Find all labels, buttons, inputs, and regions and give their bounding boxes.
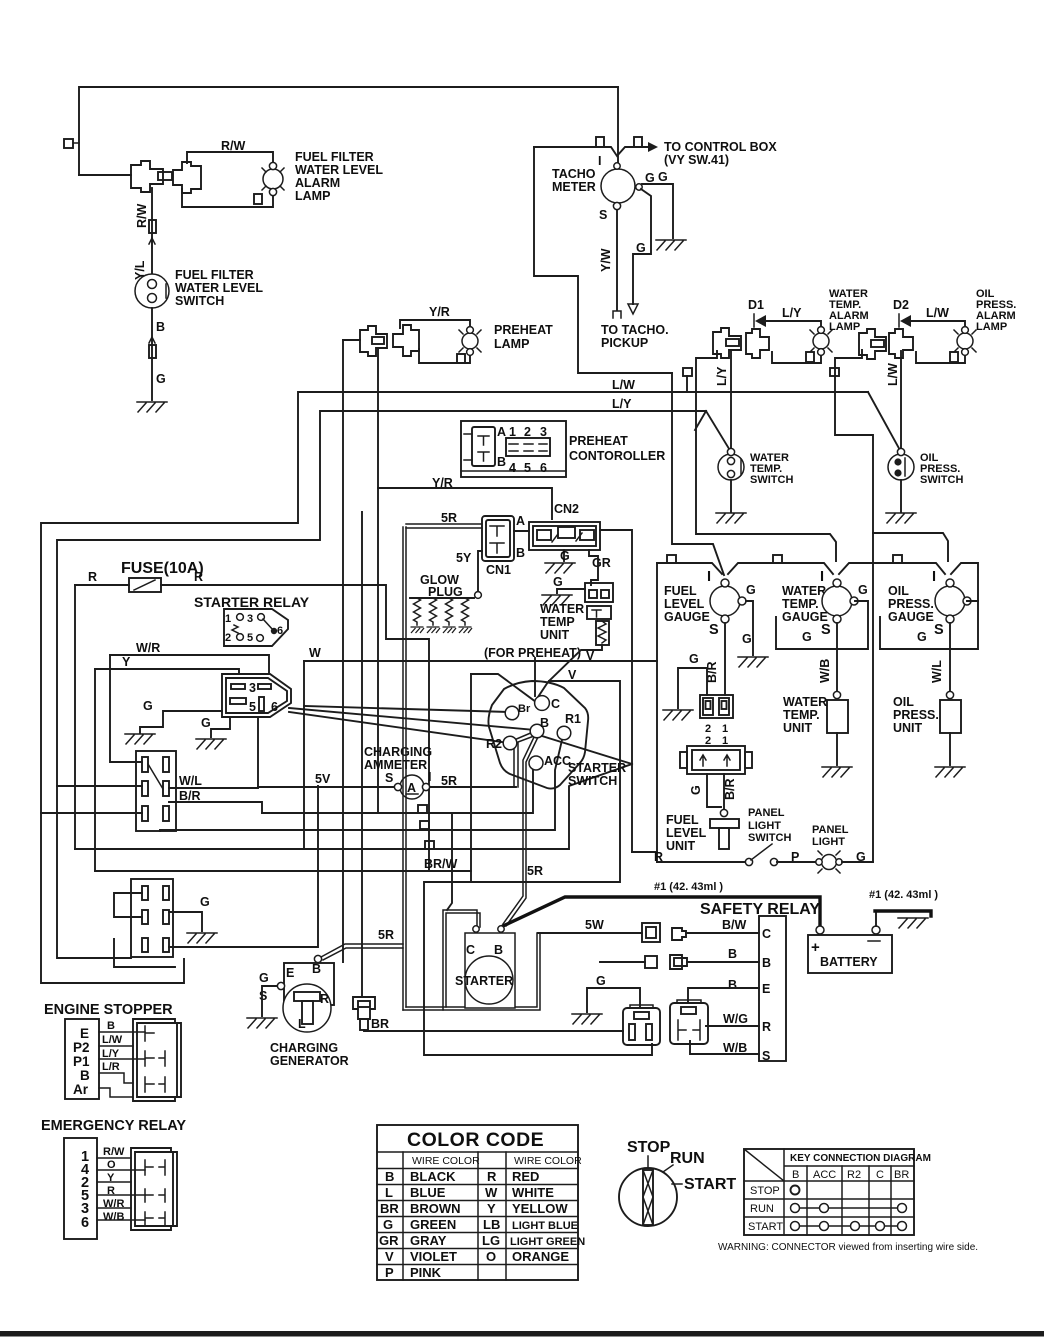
svg-text:2: 2 xyxy=(524,425,531,439)
pin E gen xyxy=(277,982,284,989)
svg-text:S: S xyxy=(709,622,720,638)
svg-text:LAMP: LAMP xyxy=(494,337,529,351)
wire L/W slant into switch xyxy=(868,392,901,452)
connector GR xyxy=(585,583,613,602)
wire G relay mid xyxy=(211,717,230,737)
svg-text:6: 6 xyxy=(271,700,278,714)
svg-text:C: C xyxy=(466,943,475,957)
svg-text:BLACK: BLACK xyxy=(410,1169,456,1184)
svg-text:Ar: Ar xyxy=(73,1082,89,1097)
wire vertical x378 from connector xyxy=(377,349,379,813)
svg-text:START: START xyxy=(748,1221,783,1233)
svg-text:WIRE COLOR: WIRE COLOR xyxy=(514,1155,582,1167)
svg-text:BR: BR xyxy=(894,1169,909,1181)
lamp fuel filter water level alarm xyxy=(263,169,283,189)
generator body xyxy=(283,984,331,1032)
connector C row square xyxy=(642,923,660,942)
connector 6pin bottom left xyxy=(131,879,173,957)
svg-text:CHARGING: CHARGING xyxy=(270,1041,338,1055)
svg-text:L/W: L/W xyxy=(926,306,949,320)
svg-text:A: A xyxy=(516,514,525,528)
svg-text:Y/W: Y/W xyxy=(599,248,613,272)
arrow to control box xyxy=(648,142,658,152)
svg-text:6: 6 xyxy=(277,625,283,637)
svg-text:WATER: WATER xyxy=(540,602,584,616)
svg-text:PRESS.: PRESS. xyxy=(893,708,939,722)
svg-text:UNIT: UNIT xyxy=(540,628,570,642)
svg-text:V: V xyxy=(385,1249,394,1264)
wire water gauge S down xyxy=(836,623,838,692)
wire BR/W xyxy=(95,870,471,872)
svg-text:W/B: W/B xyxy=(103,1211,124,1223)
svg-text:S: S xyxy=(259,989,267,1003)
svg-text:PANEL: PANEL xyxy=(812,824,849,836)
svg-text:B: B xyxy=(80,1068,90,1083)
wire sender left to R line xyxy=(707,774,721,807)
ground tacho xyxy=(656,240,686,250)
svg-text:L/R: L/R xyxy=(102,1061,120,1073)
svg-text:G: G xyxy=(658,170,668,184)
svg-text:S: S xyxy=(762,1049,770,1063)
wire switch to lamp xyxy=(777,861,819,863)
svg-text:FUEL FILTER: FUEL FILTER xyxy=(175,268,254,282)
svg-text:OIL: OIL xyxy=(893,695,914,709)
svg-text:W/B: W/B xyxy=(723,1041,747,1055)
svg-text:W/L: W/L xyxy=(179,774,202,788)
arrow hollow down xyxy=(628,304,638,314)
wire 5V feed from connector xyxy=(169,786,318,947)
wire line C from connector B xyxy=(835,350,873,862)
wire 5R branch to generator xyxy=(321,944,403,960)
terminal stub on lamp return xyxy=(254,194,262,204)
wire row B left xyxy=(600,961,645,963)
SECTION A : fuel filter block xyxy=(64,87,618,412)
svg-text:EMERGENCY RELAY: EMERGENCY RELAY xyxy=(41,1118,186,1134)
wire starter switch B to starter C double xyxy=(503,735,538,926)
wire W/L xyxy=(169,717,258,788)
svg-text:PINK: PINK xyxy=(410,1265,442,1280)
wire line A from tacho box xyxy=(672,373,724,575)
wire slant to starter switch B xyxy=(289,712,502,742)
svg-text:W/R: W/R xyxy=(136,641,160,655)
svg-text:WHITE: WHITE xyxy=(512,1185,554,1200)
relay2 body xyxy=(670,1003,708,1044)
svg-text:1: 1 xyxy=(509,425,516,439)
wire tacho feed horizontal with kink xyxy=(534,147,649,156)
svg-text:Y/R: Y/R xyxy=(429,305,450,319)
pin C xyxy=(535,696,550,711)
wire line C to oil gauge I xyxy=(873,533,948,561)
svg-text:YELLOW: YELLOW xyxy=(512,1201,568,1216)
wire row B to relay xyxy=(687,961,759,963)
wire CN2 middle to ground xyxy=(563,550,565,561)
connector alarm feed B xyxy=(859,329,886,359)
SECTION F : fuse, starter relay, connectors, stopper, emergency xyxy=(41,512,657,1239)
svg-text:BR: BR xyxy=(371,1017,389,1031)
wire mid horizontals row2 xyxy=(160,740,562,831)
svg-text:G: G xyxy=(802,630,812,644)
svg-text:A: A xyxy=(497,425,506,439)
svg-text:B: B xyxy=(516,546,525,560)
SECTION G : ammeter and starter switch xyxy=(258,527,657,1055)
svg-text:G: G xyxy=(553,575,563,589)
svg-text:S: S xyxy=(599,208,607,222)
svg-text:CN2: CN2 xyxy=(554,502,579,516)
wire CN1 B down to glow rail xyxy=(478,551,482,592)
key switch xyxy=(619,1168,677,1226)
water temp unit xyxy=(833,691,840,698)
emergency relay terminal box xyxy=(64,1138,97,1239)
wire gauges box left xyxy=(656,563,658,862)
connector sender lower xyxy=(687,746,745,774)
svg-text:(FOR PREHEAT): (FOR PREHEAT) xyxy=(484,646,581,660)
wire switch to ground xyxy=(730,480,732,512)
svg-text:B: B xyxy=(728,947,737,961)
stub rail 2 xyxy=(773,555,782,563)
wire BR xyxy=(364,1030,623,1031)
connector alarm feed A xyxy=(713,328,741,358)
fuel filter water level switch xyxy=(135,274,169,308)
connector fuel filter lamp (left half) xyxy=(131,161,163,192)
terminal stub top-left xyxy=(64,139,73,148)
svg-text:TO TACHO.: TO TACHO. xyxy=(601,323,669,337)
SECTION J : tables, key switch, footer xyxy=(0,1125,1044,1337)
stub rail 1 xyxy=(667,555,676,563)
svg-text:RUN: RUN xyxy=(750,1203,774,1215)
wire preheat connector left feed xyxy=(343,339,360,341)
glow plug 3 xyxy=(446,598,453,625)
svg-text:I: I xyxy=(428,770,431,784)
svg-text:L/W: L/W xyxy=(886,363,900,386)
pin Br xyxy=(505,706,519,720)
svg-text:V: V xyxy=(568,668,577,682)
svg-text:Br: Br xyxy=(518,703,531,715)
ground water temp switch xyxy=(716,513,746,523)
wire G pin to ground xyxy=(642,184,673,238)
svg-text:W/L: W/L xyxy=(930,660,944,683)
battery xyxy=(808,935,892,973)
svg-text:B: B xyxy=(494,943,503,957)
connector B row xyxy=(645,956,657,968)
ground relay left xyxy=(125,734,155,744)
wire main top feed xyxy=(79,87,618,175)
wire to fuel filter connector xyxy=(79,174,131,176)
ground bottom connector xyxy=(187,933,217,943)
svg-text:1: 1 xyxy=(225,613,231,625)
starter switch body xyxy=(488,681,588,789)
SECTION E : preheat controller, CN1 CN2, glow plugs xyxy=(378,421,665,852)
wire stub drop to L/W xyxy=(686,376,688,392)
svg-text:R: R xyxy=(194,570,203,584)
svg-text:LIGHT GREEN: LIGHT GREEN xyxy=(510,1236,585,1248)
wire lamp loop bottom D2 xyxy=(916,352,965,363)
wire preheat lamp top loop xyxy=(400,320,470,328)
svg-text:LAMP: LAMP xyxy=(829,321,860,333)
connector inside controller xyxy=(472,427,495,466)
wire switch to ground xyxy=(151,308,153,400)
wire lamp loop bottom D1 xyxy=(772,352,821,363)
starter body xyxy=(465,933,515,1008)
pin 5 bar xyxy=(259,697,264,711)
engine stopper terminal box xyxy=(65,1019,99,1099)
ground sender xyxy=(663,710,693,720)
connector under D1 xyxy=(746,329,769,358)
wire tacho box left xyxy=(534,147,672,373)
svg-text:PANEL: PANEL xyxy=(748,807,785,819)
svg-text:ALARM: ALARM xyxy=(295,176,340,190)
wire starter C loop double xyxy=(443,910,540,1010)
svg-text:TEMP.: TEMP. xyxy=(783,708,820,722)
wire 5R drop to C loop xyxy=(447,815,452,910)
svg-text:2: 2 xyxy=(225,632,231,644)
svg-text:LEVEL: LEVEL xyxy=(664,597,705,611)
svg-text:LEVEL: LEVEL xyxy=(666,826,707,840)
svg-text:R: R xyxy=(320,992,329,1006)
svg-text:FUEL FILTER: FUEL FILTER xyxy=(295,150,374,164)
wire D1 to lamp xyxy=(766,321,821,330)
fuel level gauge xyxy=(710,586,740,616)
svg-text:GREEN: GREEN xyxy=(410,1217,456,1232)
pin 1 bar xyxy=(231,684,245,689)
svg-text:A: A xyxy=(407,781,416,795)
svg-text:W: W xyxy=(309,646,321,660)
run circles xyxy=(795,1207,902,1209)
svg-text:L/W: L/W xyxy=(102,1034,123,1046)
terminal stub line C xyxy=(830,368,839,376)
diode D1 xyxy=(753,314,755,327)
svg-text:STOP: STOP xyxy=(627,1139,671,1156)
glow plug 2 xyxy=(430,598,437,625)
wire battery minus bracket xyxy=(875,911,877,926)
svg-text:5R: 5R xyxy=(378,928,394,942)
svg-text:SWITCH: SWITCH xyxy=(175,294,224,308)
tacho meter body xyxy=(601,169,635,203)
ground relay1 xyxy=(572,1014,602,1024)
pin ACC xyxy=(529,756,543,770)
relay1 body xyxy=(623,1008,660,1045)
wire fan R1 to right xyxy=(542,736,657,852)
svg-text:UNIT: UNIT xyxy=(666,839,696,853)
svg-text:C: C xyxy=(762,927,771,941)
svg-text:WATER: WATER xyxy=(782,584,826,598)
svg-text:SWITCH: SWITCH xyxy=(920,474,963,486)
wire U link left pins xyxy=(114,893,142,917)
svg-text:B: B xyxy=(497,455,506,469)
svg-text:I: I xyxy=(707,569,712,585)
svg-text:PREHEAT: PREHEAT xyxy=(494,323,553,337)
svg-text:ENGINE STOPPER: ENGINE STOPPER xyxy=(44,1002,173,1018)
svg-text:3: 3 xyxy=(247,613,253,625)
SECTION C : preheat lamp and trunks xyxy=(41,305,868,983)
wire 5R riser double to B pin xyxy=(514,732,534,787)
lamp water temp alarm xyxy=(813,333,829,349)
wire V down to starter switch C xyxy=(538,645,602,697)
wire L/W trunk xyxy=(41,392,868,983)
svg-text:CONTOROLLER: CONTOROLLER xyxy=(569,449,665,463)
relay socket body xyxy=(222,674,291,717)
svg-text:E: E xyxy=(286,966,294,980)
key connection table frame xyxy=(744,1149,914,1235)
wire water gauge G loop xyxy=(776,601,868,649)
svg-text:RED: RED xyxy=(512,1169,539,1184)
svg-text:LIGHT BLUE: LIGHT BLUE xyxy=(512,1220,578,1232)
wire vertical x343 xyxy=(342,340,344,962)
svg-text:G: G xyxy=(259,971,269,985)
SECTION B : tacho meter xyxy=(534,87,777,373)
svg-text:B/W: B/W xyxy=(722,918,747,932)
svg-text:BLUE: BLUE xyxy=(410,1185,446,1200)
svg-text:D1: D1 xyxy=(748,298,764,312)
svg-text:STOP: STOP xyxy=(750,1185,780,1197)
svg-text:OIL: OIL xyxy=(888,584,909,598)
svg-text:START: START xyxy=(684,1176,736,1193)
pin B gen xyxy=(314,955,321,962)
stop circle xyxy=(791,1186,800,1195)
svg-text:BR: BR xyxy=(380,1201,399,1216)
svg-text:L/Y: L/Y xyxy=(612,397,632,411)
wire CN1 to CN2 xyxy=(514,530,529,532)
svg-text:WATER: WATER xyxy=(783,695,827,709)
wire connector left stubs xyxy=(57,785,142,787)
pin B xyxy=(530,724,544,738)
connector preheat lamp right xyxy=(393,325,419,356)
wire slant to starter switch Br xyxy=(289,708,535,730)
svg-text:I: I xyxy=(820,569,825,585)
connector CN2 xyxy=(529,522,600,550)
svg-text:GENERATOR: GENERATOR xyxy=(270,1054,349,1068)
svg-text:COLOR CODE: COLOR CODE xyxy=(407,1129,544,1151)
wire Y xyxy=(95,669,239,674)
svg-text:STARTER: STARTER xyxy=(568,761,626,775)
wire G bottom connector xyxy=(169,912,202,931)
svg-text:G: G xyxy=(143,699,153,713)
wire fuel gauge S down xyxy=(724,623,726,695)
svg-text:G: G xyxy=(858,583,868,597)
svg-text:B: B xyxy=(385,1169,394,1184)
svg-text:WATER LEVEL: WATER LEVEL xyxy=(295,163,383,177)
wires engine stopper xyxy=(99,1032,145,1097)
wire G to GR connector xyxy=(557,589,585,593)
svg-text:B: B xyxy=(792,1169,799,1181)
wire connector to lamp loop xyxy=(187,152,273,167)
svg-text:STARTER: STARTER xyxy=(455,974,513,988)
svg-text:5V: 5V xyxy=(315,772,331,786)
pin 3 bar xyxy=(258,684,271,689)
svg-text:BATTERY: BATTERY xyxy=(820,955,878,969)
water temp unit for preheat sensor xyxy=(587,606,611,619)
resistor water temp unit preheat xyxy=(596,621,609,645)
svg-text:FUSE(10A): FUSE(10A) xyxy=(121,560,204,577)
svg-text:UNIT: UNIT xyxy=(893,721,923,735)
svg-text:R: R xyxy=(88,570,97,584)
svg-text:R: R xyxy=(487,1169,497,1184)
wire Y/R controller to CN2 xyxy=(378,488,552,519)
stub row3 xyxy=(425,841,434,849)
svg-text:L/W: L/W xyxy=(612,378,635,392)
wire connector A down (line B) xyxy=(696,351,836,561)
connector fuel filter lamp (right half) xyxy=(173,162,201,193)
svg-text:AMMETER: AMMETER xyxy=(364,758,427,772)
svg-text:3: 3 xyxy=(540,425,547,439)
svg-text:P2: P2 xyxy=(73,1040,90,1055)
svg-text:1: 1 xyxy=(722,723,728,735)
ground oil press switch xyxy=(886,513,916,523)
svg-text:CHARGING: CHARGING xyxy=(364,745,432,759)
wire D2 connector down to oil press switch xyxy=(900,351,902,452)
lamp preheat xyxy=(462,333,478,349)
svg-text:GR: GR xyxy=(379,1233,399,1248)
wire oil gauge S down xyxy=(949,623,951,692)
svg-text:G: G xyxy=(636,241,646,255)
starter relay body xyxy=(224,609,288,646)
terminal stub before arrow xyxy=(634,137,642,147)
ground generator xyxy=(247,1018,277,1028)
svg-text:R2: R2 xyxy=(847,1169,861,1181)
svg-text:R2: R2 xyxy=(486,737,502,751)
svg-text:METER: METER xyxy=(552,180,596,194)
svg-text:P1: P1 xyxy=(73,1054,90,1069)
wire G relay1 xyxy=(587,988,640,1012)
svg-text:PRESS.: PRESS. xyxy=(888,597,934,611)
connector CN1 xyxy=(482,516,514,561)
arrow up xyxy=(149,238,155,248)
wire ammeter I to 5R riser xyxy=(430,786,516,788)
wire B/W to relay C xyxy=(686,932,759,934)
wire 5R double vertical main xyxy=(403,527,406,1010)
column lines xyxy=(807,1166,891,1235)
svg-text:FUEL: FUEL xyxy=(666,813,699,827)
svg-text:I: I xyxy=(932,569,937,585)
ground GR side xyxy=(542,595,572,605)
wire R to panel light switch xyxy=(657,861,746,863)
pin R2 xyxy=(503,736,517,750)
stub rail 3 xyxy=(893,555,902,563)
wire lamp bottom loop xyxy=(182,189,273,207)
svg-text:LG: LG xyxy=(482,1233,500,1248)
svg-text:G: G xyxy=(201,716,211,730)
ground battery xyxy=(898,918,928,928)
start circles xyxy=(795,1225,902,1227)
svg-text:B: B xyxy=(312,962,321,976)
svg-text:G: G xyxy=(645,171,655,185)
svg-text:S: S xyxy=(934,622,945,638)
ammeter body xyxy=(400,775,424,799)
svg-text:G: G xyxy=(689,652,699,666)
wire W vertical left xyxy=(303,661,305,849)
stub row1 xyxy=(418,805,427,813)
wire riser top to starter switch C xyxy=(471,674,536,702)
connector BR xyxy=(353,997,375,1019)
svg-text:W/B: W/B xyxy=(818,659,832,683)
svg-text:R: R xyxy=(762,1020,771,1034)
wire 5W row C xyxy=(538,932,642,934)
wire G branch to pickup xyxy=(633,189,651,304)
wire W/R drop xyxy=(110,655,142,762)
wire switch to ground xyxy=(900,480,902,512)
svg-text:RUN: RUN xyxy=(670,1150,705,1167)
svg-text:UNIT: UNIT xyxy=(783,721,813,735)
wire W/R xyxy=(110,655,269,674)
color code table frame xyxy=(377,1125,578,1280)
wire riser x471 xyxy=(470,674,472,882)
splice on B wire xyxy=(149,345,156,358)
stub row2 xyxy=(420,821,429,829)
wire mid horizontals row1 xyxy=(262,765,536,813)
svg-text:Y: Y xyxy=(487,1201,496,1216)
svg-text:G: G xyxy=(596,974,606,988)
arrow up 2 xyxy=(149,337,155,343)
SECTION I : starter, safety relay, battery, generator xyxy=(247,815,938,1068)
